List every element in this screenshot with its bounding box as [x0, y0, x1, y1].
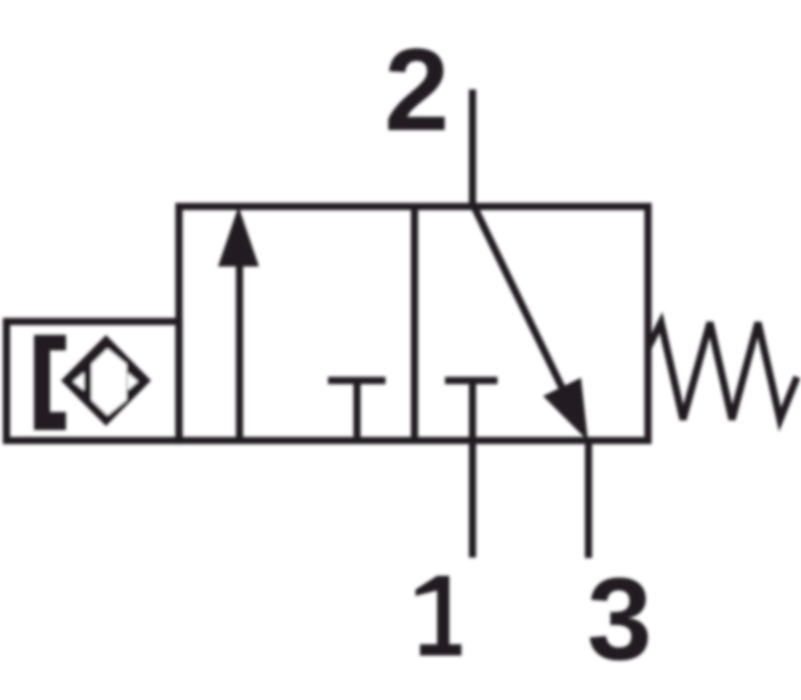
svg-text:2: 2 [384, 24, 449, 155]
up-arrow stem (left cell flow path) [236, 260, 243, 441]
svg-text:3: 3 [587, 553, 652, 684]
blocked port T right cell [445, 377, 498, 384]
valve body box (two cells) [179, 207, 648, 441]
port 2 line [469, 90, 476, 207]
port label 1 (drawn path, serif foot) [416, 576, 462, 656]
diamond right white triangle [128, 373, 139, 391]
solenoid bracket [ [34, 335, 66, 430]
solenoid box [7, 322, 180, 441]
port 1 line (also stem of right-cell blocked T) [469, 381, 476, 558]
port 3 line [585, 441, 592, 559]
cell divider [411, 207, 418, 441]
solenoid diamond (Festo mark) [61, 335, 151, 426]
diagonal flow line 2-3 (right cell) [474, 207, 566, 397]
diamond inner hexagon (white) [92, 349, 127, 416]
up-arrow head [218, 207, 259, 267]
diagonal arrow head [543, 378, 588, 441]
return spring [648, 323, 797, 420]
diamond left white triangle [73, 373, 84, 391]
blocked port T left cell [328, 377, 386, 384]
